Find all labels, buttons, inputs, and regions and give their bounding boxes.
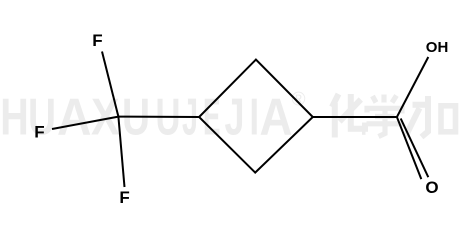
bond C-OH bbox=[397, 57, 428, 117]
watermark hanzi hua bbox=[332, 94, 366, 138]
cyclobutane ring bbox=[199, 60, 313, 173]
bond C-F top bbox=[102, 52, 118, 117]
svg-text:F: F bbox=[34, 123, 44, 142]
double bond C=O line 2 bbox=[401, 119, 429, 178]
svg-text:F: F bbox=[92, 31, 102, 50]
bond CF3 to ring bbox=[118, 116, 199, 118]
watermark HUAXUEJIA text bbox=[0, 89, 292, 147]
svg-text:A: A bbox=[57, 89, 92, 147]
svg-text:O: O bbox=[425, 178, 438, 197]
structure bbox=[52, 52, 428, 188]
svg-text:J: J bbox=[225, 89, 245, 147]
bond C-F left bbox=[52, 117, 118, 129]
bond ring to carboxyl C bbox=[313, 116, 397, 118]
svg-text:I: I bbox=[250, 89, 260, 147]
watermark hanzi jia bbox=[406, 96, 456, 137]
watermark hanzi xue bbox=[367, 95, 404, 137]
svg-text:A: A bbox=[260, 89, 293, 147]
bond C-F bottom bbox=[118, 117, 124, 187]
svg-text:OH: OH bbox=[426, 39, 449, 56]
svg-text:F: F bbox=[119, 188, 129, 207]
svg-text:H: H bbox=[0, 89, 29, 147]
double bond C=O line 1 bbox=[397, 117, 421, 179]
